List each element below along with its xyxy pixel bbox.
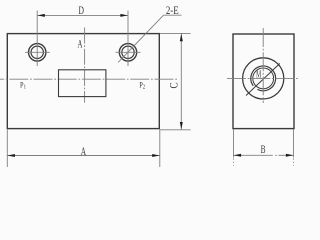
side view port inner circle bbox=[253, 68, 274, 89]
dimension B line left segment bbox=[234, 154, 273, 156]
hole P1 outer circle bbox=[29, 44, 46, 61]
dimension A line bbox=[7, 155, 160, 157]
dimension B left arrow bbox=[234, 154, 241, 157]
svg-text:D: D bbox=[78, 5, 83, 18]
front view vertical centerline bbox=[84, 28, 86, 103]
side view outline bbox=[233, 34, 294, 129]
hole 2-E inner circle bbox=[122, 46, 134, 58]
svg-text:A: A bbox=[81, 145, 86, 158]
dimension A (bottom) left extension line bbox=[6, 130, 8, 167]
dimension C top extension line bbox=[160, 32, 191, 34]
hole 2-E outer circle bbox=[119, 44, 136, 61]
side view port diagonal line bbox=[246, 64, 280, 96]
dimension C top arrow bbox=[180, 34, 183, 41]
dimension C bottom extension line bbox=[160, 129, 191, 131]
side view port outer circle bbox=[243, 58, 284, 99]
hole P1 inner circle bbox=[31, 46, 43, 58]
dimension B right extension line bbox=[293, 130, 295, 158]
dimension C line bbox=[180, 34, 182, 130]
dimension A left arrow bbox=[8, 154, 15, 157]
dimension D line bbox=[37, 14, 128, 16]
2-E leader underline bbox=[164, 14, 182, 16]
dimension C bottom arrow bbox=[180, 122, 183, 129]
hole 2-E vertical centerline / D extension line bbox=[127, 11, 129, 67]
front view horizontal centerline bbox=[0, 78, 177, 80]
svg-text:B: B bbox=[261, 143, 266, 156]
side view port middle circle (thread major dia, gap at lower-left) bbox=[251, 66, 276, 91]
front view outline bbox=[7, 34, 159, 129]
dimension B line dot bbox=[275, 154, 277, 156]
middle rectangle (port boss) bbox=[59, 70, 106, 97]
dimension B left extension dots bbox=[233, 159, 235, 166]
dimension B right extension dots bbox=[293, 159, 295, 166]
dimension B line right segment bbox=[278, 154, 293, 156]
dimension B left extension line bbox=[233, 130, 235, 158]
side view horizontal centerline bbox=[227, 77, 299, 79]
dimension D right arrow bbox=[120, 14, 127, 17]
svg-text:M: M bbox=[256, 68, 261, 80]
hole P1 horizontal centerline bbox=[25, 51, 50, 53]
dimension A (bottom) right extension line bbox=[159, 130, 161, 167]
dimension B right arrow bbox=[286, 154, 293, 157]
dimension A right arrow bbox=[152, 154, 159, 157]
hole P1 vertical centerline / D extension line bbox=[36, 11, 38, 67]
svg-text:C: C bbox=[168, 82, 180, 88]
2-E leader diagonal line bbox=[118, 15, 164, 62]
side view vertical centerline bbox=[262, 28, 264, 103]
svg-text:A: A bbox=[78, 39, 83, 51]
dimension D left arrow bbox=[37, 14, 44, 17]
svg-text:2-E: 2-E bbox=[166, 5, 179, 17]
hole 2-E horizontal centerline bbox=[116, 51, 141, 53]
